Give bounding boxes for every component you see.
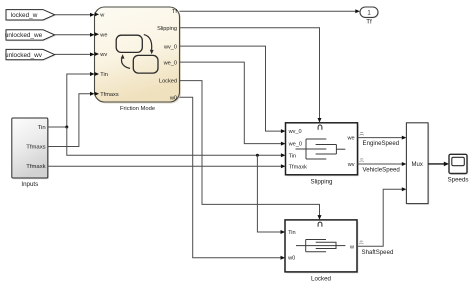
wire Slipping we to Mux with EngineSpeed label bbox=[358, 132, 407, 147]
wire chart Tf to outport bbox=[180, 9, 360, 13]
block Inputs bbox=[12, 118, 49, 188]
svg-text:Locked: Locked bbox=[159, 79, 177, 85]
outport oval Tf bbox=[360, 7, 379, 26]
svg-text:unlocked_we: unlocked_we bbox=[5, 32, 43, 39]
svg-text:wv: wv bbox=[347, 162, 355, 168]
wire chart wv_0 to Slipping bbox=[180, 46, 286, 133]
svg-text:VehicleSpeed: VehicleSpeed bbox=[363, 167, 400, 174]
svg-text:Tf: Tf bbox=[172, 9, 177, 15]
chart input port w bbox=[95, 12, 106, 18]
svg-text:Tfmaxk: Tfmaxk bbox=[26, 164, 45, 170]
svg-text:Inputs: Inputs bbox=[21, 181, 38, 188]
wire chart Slipping to Slipping trigger bbox=[180, 28, 322, 123]
wire chart w0 to Locked bbox=[180, 97, 286, 259]
svg-text:Tfmaxk: Tfmaxk bbox=[289, 164, 308, 170]
svg-text:we_0: we_0 bbox=[163, 60, 177, 66]
chart icon state 2 bbox=[133, 55, 158, 73]
svg-text:Tin: Tin bbox=[38, 125, 46, 131]
svg-text:w0: w0 bbox=[169, 96, 177, 102]
input tag locked_w bbox=[6, 10, 56, 22]
chart icon transition right bbox=[144, 35, 154, 55]
wire Tin from Inputs with branch bbox=[48, 72, 286, 234]
Locked trigger symbol bbox=[318, 222, 322, 227]
wire Locked w to Mux with ShaftSpeed label bbox=[357, 187, 406, 256]
wire chart Locked to Locked trigger bbox=[180, 81, 322, 220]
svg-text:Mux: Mux bbox=[412, 162, 423, 168]
svg-text:Locked: Locked bbox=[311, 276, 332, 283]
svg-text:ShaftSpeed: ShaftSpeed bbox=[362, 249, 394, 256]
chart Friction Mode bbox=[95, 7, 182, 112]
svg-text:Tin: Tin bbox=[289, 153, 297, 159]
chart icon state 1 bbox=[116, 35, 142, 52]
svg-text:we: we bbox=[99, 32, 107, 38]
Slipping clutch icon bbox=[296, 139, 346, 159]
svg-text:EngineSpeed: EngineSpeed bbox=[363, 140, 400, 147]
Locked clutch icon bbox=[296, 240, 345, 252]
chart input port Tin bbox=[95, 72, 108, 78]
chart input port wv bbox=[95, 52, 108, 58]
wire unlocked_we to chart we bbox=[55, 33, 95, 37]
wire Tfmaxs from Inputs to chart bbox=[48, 92, 95, 147]
svg-text:Slipping: Slipping bbox=[157, 26, 177, 32]
svg-text:Tfmaxs: Tfmaxs bbox=[100, 92, 119, 98]
wire Slipping wv to Mux with VehicleSpeed label bbox=[358, 159, 407, 174]
wire unlocked_wv to chart wv bbox=[55, 52, 95, 56]
svg-text:Tin: Tin bbox=[100, 72, 108, 78]
svg-text:Tin: Tin bbox=[288, 230, 296, 236]
wire Tfmaxk from Inputs to Slipping bbox=[48, 164, 286, 168]
wire locked_w to chart w bbox=[55, 13, 95, 17]
input tag unlocked_we bbox=[5, 30, 56, 41]
chart input port Tfmaxs bbox=[95, 92, 119, 98]
input tag unlocked_wv bbox=[5, 49, 56, 60]
block Mux bbox=[406, 123, 429, 205]
svg-text:Slipping: Slipping bbox=[310, 179, 333, 186]
svg-text:wv_0: wv_0 bbox=[288, 129, 302, 135]
wire chart we_0 to Slipping bbox=[180, 62, 286, 146]
svg-text:unlocked_wv: unlocked_wv bbox=[5, 52, 43, 59]
svg-text:Speeds: Speeds bbox=[448, 176, 469, 183]
svg-text:locked_w: locked_w bbox=[11, 12, 38, 19]
chart icon transition left bbox=[121, 54, 130, 68]
svg-text:Friction Mode: Friction Mode bbox=[120, 106, 155, 112]
block Locked bbox=[285, 220, 359, 283]
svg-text:we: we bbox=[346, 135, 354, 141]
block Scope Speeds bbox=[448, 154, 469, 183]
svg-text:w0: w0 bbox=[287, 256, 295, 262]
svg-text:wv: wv bbox=[99, 52, 107, 58]
svg-text:we_0: we_0 bbox=[288, 142, 302, 148]
svg-text:Tf: Tf bbox=[366, 19, 372, 26]
wire Mux to Scope bbox=[428, 162, 449, 167]
Slipping trigger symbol bbox=[318, 125, 322, 130]
block Slipping bbox=[286, 123, 360, 186]
chart input port we bbox=[95, 32, 108, 38]
svg-text:wv_0: wv_0 bbox=[163, 44, 177, 50]
svg-text:Tfmaxs: Tfmaxs bbox=[26, 145, 45, 151]
